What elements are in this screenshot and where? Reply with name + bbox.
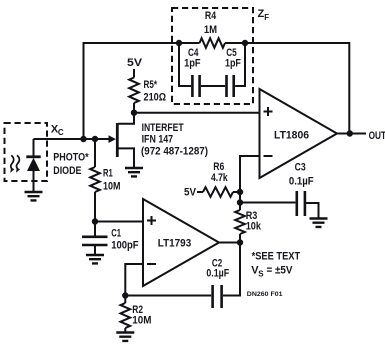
op-amp U1 LT1806: [260, 89, 338, 178]
wire drain node to LT1806 +in: [134, 112, 260, 114]
svg-text:LT1806: LT1806: [274, 130, 309, 142]
junction feedback wire / XC: [80, 136, 86, 142]
resistor R6 4.7k: [197, 161, 240, 197]
wire output node down to C2: [223, 243, 240, 296]
svg-text:1M: 1M: [204, 24, 217, 36]
svg-text:INTERFET: INTERFET: [142, 122, 184, 134]
svg-text:0.1µF: 0.1µF: [206, 268, 229, 280]
resistor R4 1M: [200, 10, 226, 48]
svg-text:R5*: R5*: [144, 79, 158, 91]
ground C3: [310, 219, 328, 227]
svg-text:10M: 10M: [103, 181, 121, 193]
resistor R2 10M: [121, 296, 152, 333]
ground JFET source: [125, 168, 143, 176]
label INTERFET IFN 147: [141, 122, 208, 157]
junction -in / R2 / C2: [122, 292, 128, 298]
wire tap to C3: [240, 202, 295, 204]
svg-text:5V: 5V: [127, 57, 143, 69]
wire node to LT1793 +in: [95, 221, 143, 223]
svg-text:5V: 5V: [184, 186, 197, 198]
transistor Q1 JFET: [109, 113, 135, 168]
resistor R1 10M: [90, 139, 120, 222]
svg-text:1pF: 1pF: [225, 57, 241, 69]
capacitor C4 1pF: [179, 43, 201, 97]
svg-text:= ±5V: = ±5V: [267, 265, 294, 277]
wire LT1806 -in down to R6/R3 junction: [240, 156, 260, 210]
svg-text:*SEE TEXT: *SEE TEXT: [252, 250, 301, 262]
svg-text:4.7k: 4.7k: [211, 172, 228, 184]
ground photodiode: [25, 192, 43, 200]
dashed box ZF feedback network: [172, 8, 253, 104]
capacitor C5 1pF: [201, 43, 245, 97]
capacitor C2 0.1uF: [206, 258, 229, 308]
dashed box photodiode: [5, 123, 48, 181]
svg-text:C: C: [58, 128, 64, 137]
svg-text:(972 487-1287): (972 487-1287): [141, 145, 208, 157]
resistor R3 10k: [235, 210, 262, 243]
junction gate wire / R1: [92, 136, 98, 142]
junction C3 tap: [237, 199, 243, 205]
wire node XC to JFET gate: [34, 138, 110, 140]
svg-text:10k: 10k: [246, 220, 262, 232]
svg-text:0.1µF: 0.1µF: [289, 175, 314, 187]
svg-text:10M: 10M: [132, 315, 151, 327]
junction ZF right node: [242, 40, 248, 46]
junction R1 / C1 / +in: [92, 218, 98, 224]
svg-text:100pF: 100pF: [111, 240, 139, 252]
capacitor C1 100pF: [82, 222, 139, 256]
svg-text:R1: R1: [103, 168, 113, 180]
svg-text:OUT: OUT: [369, 130, 385, 142]
label PHOTO* DIODE: [53, 152, 89, 178]
svg-text:1pF: 1pF: [184, 57, 201, 69]
note SEE TEXT: [251, 250, 300, 278]
junction LT1793 out / R3: [237, 239, 243, 245]
svg-text:R4: R4: [205, 10, 217, 22]
wire LT1793 output to R3 node: [219, 242, 240, 244]
light arrows: [10, 155, 20, 173]
op-amp U2 LT1793: [143, 199, 219, 286]
wire LT1806 output to OUT: [337, 133, 366, 135]
ground R2: [116, 333, 134, 341]
node label XC: [51, 123, 64, 137]
ground C1: [86, 255, 104, 263]
junction R6 / -in: [237, 189, 243, 195]
photodiode D1: [26, 139, 40, 192]
resistor R5 210 ohm: [129, 69, 166, 113]
capacitor C3 0.1uF: [289, 162, 319, 219]
junction JFET drain / R5: [131, 110, 137, 116]
node label ZF: [258, 8, 270, 22]
svg-text:DIODE: DIODE: [53, 165, 81, 177]
wire photodiode node up and right to ZF network: [84, 43, 200, 139]
junction ZF left node: [176, 40, 182, 46]
svg-text:C1: C1: [111, 228, 121, 240]
svg-text:IFN 147: IFN 147: [142, 134, 174, 146]
junction OUT node: [347, 130, 353, 136]
svg-text:F: F: [264, 13, 269, 22]
wire C2 to -in node: [125, 295, 211, 297]
svg-text:PHOTO*: PHOTO*: [53, 152, 89, 164]
svg-text:LT1793: LT1793: [158, 238, 191, 250]
wire ZF network to output node: [225, 43, 349, 134]
svg-text:C3: C3: [295, 162, 306, 174]
wire LT1793 -in to feedback node: [125, 264, 143, 296]
svg-text:210Ω: 210Ω: [144, 92, 167, 104]
svg-text:S: S: [258, 269, 264, 278]
svg-text:DN260 F01: DN260 F01: [247, 291, 283, 298]
